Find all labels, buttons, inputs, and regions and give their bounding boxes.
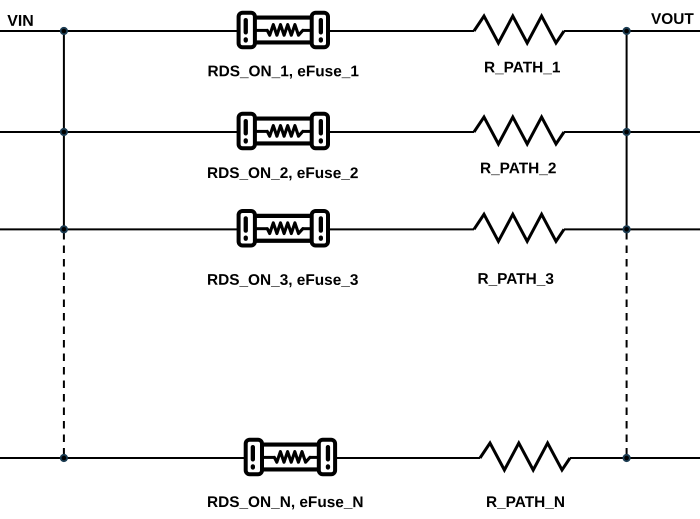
wire right VOUT bus solid: [626, 31, 628, 229]
junction dot row1 right: [623, 27, 631, 35]
resistor R_PATH_2: [474, 117, 564, 144]
svg-text:VIN: VIN: [7, 13, 34, 30]
svg-text:R_PATH_N: R_PATH_N: [486, 494, 565, 511]
wire row 3: [0, 228, 700, 230]
svg-text:RDS_ON_N, eFuse_N: RDS_ON_N, eFuse_N: [207, 494, 364, 511]
wire right VOUT bus dashed: [626, 232, 628, 458]
svg-text:RDS_ON_3, eFuse_3: RDS_ON_3, eFuse_3: [207, 272, 358, 289]
wire left VIN bus dashed: [63, 232, 65, 458]
eFuse_1 symbol: [239, 13, 328, 48]
junction dot row3 right: [623, 225, 631, 233]
svg-text:VOUT: VOUT: [651, 11, 694, 28]
svg-text:R_PATH_1: R_PATH_1: [484, 59, 561, 76]
junction dot rowN left: [60, 454, 68, 462]
eFuse_N symbol: [246, 440, 335, 475]
junction dot row3 left: [60, 225, 68, 233]
wire left VIN bus solid: [63, 31, 65, 229]
wire row N: [0, 457, 700, 459]
wire row 1: [0, 30, 700, 32]
resistor R_PATH_N: [480, 443, 570, 470]
svg-text:RDS_ON_1, eFuse_1: RDS_ON_1, eFuse_1: [207, 63, 359, 80]
junction dot rowN right: [623, 454, 631, 462]
resistor R_PATH_1: [474, 16, 564, 43]
svg-text:R_PATH_3: R_PATH_3: [477, 271, 553, 288]
eFuse_2 symbol: [239, 114, 328, 149]
resistor R_PATH_3: [474, 214, 564, 241]
junction dot row1 left: [60, 27, 68, 35]
svg-text:RDS_ON_2, eFuse_2: RDS_ON_2, eFuse_2: [207, 165, 358, 182]
junction dot row2 left: [60, 128, 68, 136]
eFuse_3 symbol: [239, 211, 328, 246]
junction dot row2 right: [623, 128, 631, 136]
svg-text:R_PATH_2: R_PATH_2: [480, 160, 556, 177]
wire row 2: [0, 131, 700, 133]
